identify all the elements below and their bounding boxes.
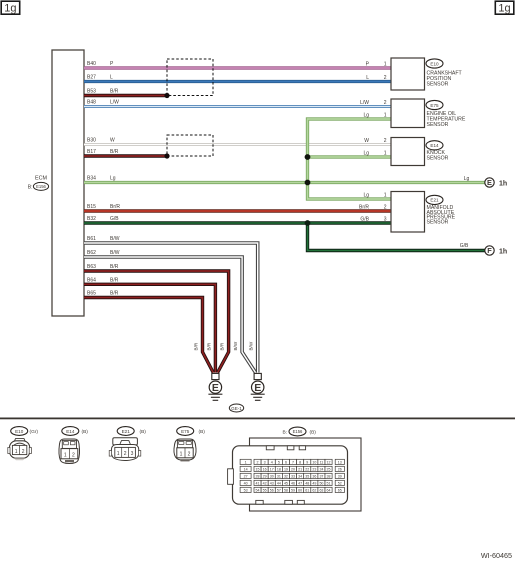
svg-text:B65: B65 <box>87 291 96 297</box>
svg-text:32: 32 <box>284 474 288 478</box>
svg-text:7: 7 <box>292 460 294 464</box>
connector latch <box>228 469 234 485</box>
svg-text:50: 50 <box>319 481 323 485</box>
svg-text:55: 55 <box>263 488 267 492</box>
svg-text:64: 64 <box>327 488 331 492</box>
connector pin grid <box>240 459 344 492</box>
svg-text:1: 1 <box>245 460 247 464</box>
svg-text:(B): (B) <box>82 429 89 435</box>
connector label E10 <box>11 427 39 436</box>
svg-text:E75: E75 <box>430 103 439 108</box>
svg-text:B/R: B/R <box>220 342 225 350</box>
wire Lg to knock sensor pin 1 <box>308 155 392 158</box>
svg-text:B:: B: <box>282 429 287 435</box>
svg-text:51: 51 <box>327 481 331 485</box>
shield box around knock sensor wire <box>167 135 213 156</box>
svg-text:44: 44 <box>277 481 281 485</box>
svg-text:5: 5 <box>278 460 280 464</box>
wire B40 P <box>84 66 391 69</box>
connector label B: E156 (B) <box>282 427 316 436</box>
svg-text:2: 2 <box>384 100 387 106</box>
svg-text:Lg: Lg <box>110 176 116 182</box>
wire B30 W <box>84 143 391 146</box>
ECM label with connector oval E156 <box>28 176 49 191</box>
svg-text:2: 2 <box>72 453 75 459</box>
svg-text:1: 1 <box>117 451 120 457</box>
svg-text:23: 23 <box>312 467 316 471</box>
svg-text:9: 9 <box>306 460 308 464</box>
svg-text:59: 59 <box>291 488 295 492</box>
svg-text:(B): (B) <box>199 429 206 435</box>
svg-text:11: 11 <box>320 460 324 464</box>
svg-text:8: 8 <box>299 460 301 464</box>
svg-text:36: 36 <box>312 474 316 478</box>
page tag 1g top-left <box>1 1 20 14</box>
svg-text:E14: E14 <box>66 429 75 434</box>
ground E 1h <box>485 178 507 188</box>
svg-text:1g: 1g <box>498 3 510 15</box>
svg-text:B32: B32 <box>87 216 96 222</box>
junction dot Lg bus at knock row <box>305 154 311 160</box>
svg-text:24: 24 <box>319 467 323 471</box>
svg-text:10: 10 <box>312 460 316 464</box>
svg-text:61: 61 <box>305 488 309 492</box>
svg-text:30: 30 <box>270 474 274 478</box>
page tag 1g top-right <box>495 1 514 14</box>
svg-text:43: 43 <box>270 481 274 485</box>
svg-text:B/R: B/R <box>110 278 119 284</box>
svg-text:B:: B: <box>28 184 33 190</box>
MAP sensor box <box>391 192 425 233</box>
svg-text:1h: 1h <box>499 248 507 255</box>
svg-text:B62: B62 <box>87 250 96 256</box>
wire B64 B/R to ground <box>84 284 215 372</box>
svg-text:P: P <box>110 61 114 67</box>
svg-text:2: 2 <box>188 452 191 458</box>
svg-text:12: 12 <box>327 460 331 464</box>
svg-text:21: 21 <box>298 467 302 471</box>
svg-text:E156: E156 <box>293 429 303 434</box>
svg-text:B/W: B/W <box>249 341 254 350</box>
svg-text:ECM: ECM <box>35 176 47 182</box>
svg-text:G/B: G/B <box>460 243 469 249</box>
svg-text:25: 25 <box>327 467 331 471</box>
svg-text:1: 1 <box>15 449 18 455</box>
svg-text:18: 18 <box>277 467 281 471</box>
svg-text:E156: E156 <box>36 184 46 189</box>
junction dot Lg bus at main row <box>305 180 311 186</box>
knock sensor box <box>391 138 425 166</box>
svg-text:47: 47 <box>298 481 302 485</box>
svg-text:B/W: B/W <box>110 236 120 242</box>
wire B62 B/W to ground <box>84 257 256 373</box>
node GE-1 <box>229 404 243 412</box>
connector bottom tabs <box>256 500 304 504</box>
svg-text:E14: E14 <box>430 143 439 148</box>
svg-text:G/B: G/B <box>360 216 369 222</box>
svg-text:B63: B63 <box>87 264 96 270</box>
connector ref E14 <box>426 141 443 150</box>
svg-text:B61: B61 <box>87 236 96 242</box>
svg-text:B48: B48 <box>87 100 96 106</box>
svg-text:2: 2 <box>257 460 259 464</box>
svg-text:WI-60465: WI-60465 <box>481 551 512 560</box>
svg-text:53: 53 <box>244 488 248 492</box>
svg-text:W: W <box>110 138 115 144</box>
svg-text:B30: B30 <box>87 138 96 144</box>
svg-text:62: 62 <box>312 488 316 492</box>
connector ref E21 <box>426 195 443 204</box>
svg-text:3: 3 <box>384 216 387 222</box>
connector view E14 <box>59 439 80 464</box>
connector view E75 <box>174 439 196 461</box>
connector top tabs <box>266 446 305 450</box>
svg-text:SENSOR: SENSOR <box>427 220 449 226</box>
svg-text:SENSOR: SENSOR <box>427 156 449 162</box>
ground F 1h <box>485 246 507 256</box>
svg-text:L/W: L/W <box>360 100 369 106</box>
svg-text:19: 19 <box>284 467 288 471</box>
ECM box <box>52 50 84 316</box>
svg-text:W: W <box>364 138 369 144</box>
connector view E10 <box>8 439 32 461</box>
svg-text:(Gr): (Gr) <box>30 429 39 435</box>
svg-text:B/R: B/R <box>206 342 211 350</box>
svg-text:E: E <box>254 382 261 394</box>
wire B65 B/R to ground <box>84 298 213 373</box>
svg-text:27: 27 <box>244 474 248 478</box>
svg-text:1h: 1h <box>499 180 507 187</box>
svg-text:65: 65 <box>338 488 342 492</box>
svg-text:49: 49 <box>312 481 316 485</box>
svg-text:B40: B40 <box>87 61 96 67</box>
svg-text:(B): (B) <box>140 429 147 435</box>
wire B48 L/W <box>84 105 391 108</box>
svg-text:E75: E75 <box>181 429 190 434</box>
connector label E14 <box>62 427 88 436</box>
svg-text:1: 1 <box>180 452 183 458</box>
svg-text:2: 2 <box>22 449 25 455</box>
svg-text:46: 46 <box>291 481 295 485</box>
svg-text:60: 60 <box>298 488 302 492</box>
junction dot shield 1 <box>164 93 169 98</box>
svg-text:3: 3 <box>131 451 134 457</box>
svg-text:Br/R: Br/R <box>110 204 120 210</box>
svg-text:33: 33 <box>291 474 295 478</box>
svg-text:B/W: B/W <box>233 341 238 350</box>
shield box around crankshaft sensor wires <box>167 59 213 96</box>
svg-text:SENSOR: SENSOR <box>427 122 449 128</box>
svg-text:E10: E10 <box>430 61 439 66</box>
svg-text:E10: E10 <box>15 429 24 434</box>
wire B34 Lg <box>84 181 485 184</box>
svg-text:52: 52 <box>338 481 342 485</box>
label engine oil temperature sensor <box>427 111 466 128</box>
wire Lg bus: engine oil temp pin 1 to MAP pin 1 <box>308 119 392 199</box>
svg-text:(B): (B) <box>310 429 317 435</box>
svg-text:13: 13 <box>338 460 342 464</box>
svg-text:35: 35 <box>305 474 309 478</box>
connector view E21 <box>109 438 141 461</box>
connector ref E75 <box>426 100 443 109</box>
svg-text:40: 40 <box>244 481 248 485</box>
svg-text:6: 6 <box>285 460 287 464</box>
svg-text:B15: B15 <box>87 204 96 210</box>
svg-text:F: F <box>487 246 492 255</box>
svg-text:B53: B53 <box>87 89 96 95</box>
svg-text:SENSOR: SENSOR <box>427 82 449 88</box>
connector label E75 <box>177 427 206 436</box>
wire B61 B/W to ground <box>84 243 258 373</box>
svg-text:GE-1: GE-1 <box>231 406 242 411</box>
connector label E21 <box>117 427 146 436</box>
svg-text:54: 54 <box>256 488 260 492</box>
svg-text:B/R: B/R <box>110 291 119 297</box>
junction dot G/B <box>305 220 311 226</box>
svg-text:B/R: B/R <box>110 264 119 270</box>
svg-text:42: 42 <box>263 481 267 485</box>
svg-text:38: 38 <box>327 474 331 478</box>
engine oil temperature sensor box <box>391 99 425 128</box>
crankshaft position sensor box <box>391 58 425 90</box>
svg-text:63: 63 <box>319 488 323 492</box>
svg-text:B/R: B/R <box>110 149 119 155</box>
junction dot shield 2 <box>164 153 169 158</box>
wire B63 B/R to ground <box>84 271 229 373</box>
svg-text:15: 15 <box>256 467 260 471</box>
svg-text:28: 28 <box>256 474 260 478</box>
wire B17 B/R <box>84 154 167 157</box>
svg-text:E21: E21 <box>430 198 439 203</box>
svg-text:1: 1 <box>384 61 387 67</box>
ground E right <box>251 373 265 400</box>
svg-text:L/W: L/W <box>110 100 119 106</box>
svg-text:58: 58 <box>284 488 288 492</box>
svg-text:Lg: Lg <box>464 176 470 182</box>
svg-text:56: 56 <box>270 488 274 492</box>
svg-text:22: 22 <box>305 467 309 471</box>
svg-text:17: 17 <box>270 467 274 471</box>
svg-text:16: 16 <box>263 467 267 471</box>
svg-text:29: 29 <box>263 474 267 478</box>
svg-text:E21: E21 <box>122 429 131 434</box>
svg-text:37: 37 <box>319 474 323 478</box>
svg-text:L: L <box>366 75 369 81</box>
svg-text:Br/R: Br/R <box>359 204 369 210</box>
svg-text:41: 41 <box>256 481 260 485</box>
wire B27 L <box>84 80 391 83</box>
wire B32 G/B <box>84 221 391 224</box>
svg-text:1: 1 <box>64 453 67 459</box>
wire B15 Br/R <box>84 209 391 212</box>
svg-text:2: 2 <box>124 451 127 457</box>
label crankshaft position sensor <box>427 71 463 88</box>
svg-text:B34: B34 <box>87 176 96 182</box>
label knock sensor <box>427 150 449 162</box>
svg-text:1g: 1g <box>4 3 16 15</box>
svg-text:B27: B27 <box>87 75 96 81</box>
svg-text:20: 20 <box>291 467 295 471</box>
svg-text:3: 3 <box>264 460 266 464</box>
svg-text:14: 14 <box>244 467 248 471</box>
svg-text:2: 2 <box>384 204 387 210</box>
svg-text:4: 4 <box>271 460 273 464</box>
wire B53 B/R <box>84 94 167 97</box>
svg-text:B/W: B/W <box>110 250 120 256</box>
ground E left <box>208 373 222 400</box>
svg-text:E: E <box>212 382 219 394</box>
svg-text:45: 45 <box>284 481 288 485</box>
svg-text:B/R: B/R <box>110 89 119 95</box>
svg-text:2: 2 <box>384 138 387 144</box>
svg-text:B17: B17 <box>87 149 96 155</box>
svg-text:48: 48 <box>305 481 309 485</box>
svg-text:34: 34 <box>298 474 302 478</box>
svg-text:57: 57 <box>277 488 281 492</box>
connector ref E10 <box>426 59 443 68</box>
connector view E156 outer shell <box>250 438 362 511</box>
svg-text:E: E <box>487 178 492 187</box>
connector view E156 body <box>233 446 348 504</box>
svg-text:39: 39 <box>338 474 342 478</box>
svg-text:26: 26 <box>338 467 342 471</box>
wire G/B branch to ground F <box>308 223 485 251</box>
svg-text:L: L <box>110 75 113 81</box>
separator line <box>0 418 515 420</box>
svg-text:B64: B64 <box>87 278 96 284</box>
svg-text:B/R: B/R <box>194 342 199 350</box>
svg-text:G/B: G/B <box>110 216 119 222</box>
label MAP sensor <box>427 205 456 226</box>
svg-text:31: 31 <box>277 474 281 478</box>
svg-text:2: 2 <box>384 75 387 81</box>
